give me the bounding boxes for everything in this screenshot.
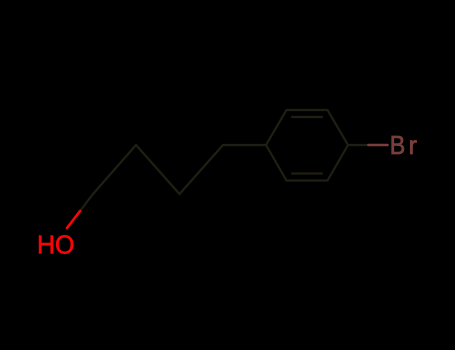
benzene ring outer edge BR-BL — [287, 179, 328, 181]
benzene ring outer edge R-BR — [328, 145, 349, 181]
svg-text:Br: Br — [390, 130, 418, 160]
bond C-Br bromine half (maroon) — [369, 144, 388, 147]
benzene ring outer edge L-TL — [266, 110, 287, 145]
aromatic double bond inner line top — [292, 116, 322, 118]
bond ring to CH2 benzylic (horizontal) — [223, 144, 266, 146]
bond CH2-CH2OH descending — [93, 145, 136, 194]
benzene ring outer edge TL-TR — [287, 109, 328, 111]
bond C-Br carbon half (dark) — [348, 144, 369, 146]
benzene ring outer edge BL-L — [266, 145, 287, 181]
bond C-O oxygen half (red) — [67, 211, 80, 228]
bond CH2-CH2 chain descending — [180, 145, 224, 194]
bond C-O carbon half (dark) — [80, 194, 93, 211]
bond CH2-CH2 chain ascending — [136, 145, 180, 194]
benzene ring outer edge TR-R — [328, 110, 349, 145]
aromatic double bond inner line bottom — [292, 172, 322, 174]
svg-text:HO: HO — [37, 230, 75, 260]
